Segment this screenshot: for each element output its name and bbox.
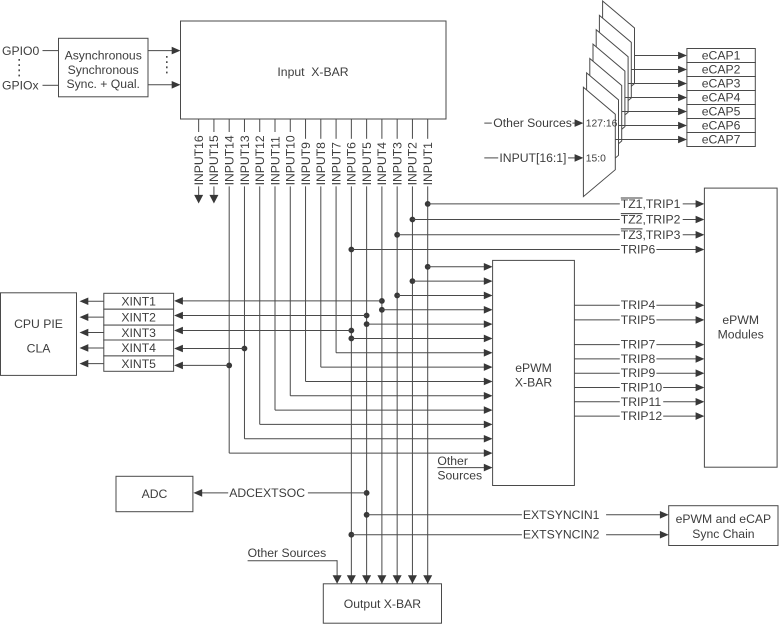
arrow INPUT4 into Output X-BAR <box>377 575 386 584</box>
svg-text:eCAP7: eCAP7 <box>702 133 741 147</box>
label eCAP2 <box>702 63 741 77</box>
box Output X-BAR <box>323 584 441 623</box>
svg-text:INPUT2: INPUT2 <box>406 142 420 186</box>
label Asynchronous <box>65 49 142 63</box>
wire INPUT6 <box>345 119 359 584</box>
svg-text:INPUT6: INPUT6 <box>345 142 359 186</box>
wire INPUT4 into ePWM X-BAR row 4 <box>379 306 493 314</box>
arrow INPUT2 into Output X-BAR <box>408 575 417 584</box>
svg-text:XINT5: XINT5 <box>121 357 156 371</box>
wire mux card 3 to eCAP4 <box>625 94 687 102</box>
svg-text:INPUT[16:1]: INPUT[16:1] <box>499 151 566 165</box>
wire INPUT4 <box>375 119 389 584</box>
svg-text:TZ3,TRIP3: TZ3,TRIP3 <box>621 228 681 242</box>
wire Other Sources into mux <box>484 116 583 130</box>
label 15:0 <box>586 153 606 164</box>
svg-text:XINT4: XINT4 <box>121 341 156 355</box>
label Output X-BAR <box>344 597 421 611</box>
svg-text:INPUT1: INPUT1 <box>421 142 435 186</box>
svg-text:TRIP5: TRIP5 <box>621 313 656 327</box>
arrow XINT3 to CPU PIE <box>80 329 104 337</box>
wire INPUT5 <box>360 119 374 584</box>
wire TRIP8 from ePWM X-BAR to ePWM Modules <box>574 352 704 366</box>
label Other Sources (Output X-BAR) <box>248 546 327 560</box>
wire INPUT2 <box>406 119 420 584</box>
label eCAP5 <box>702 105 741 119</box>
svg-text:X-BAR: X-BAR <box>515 376 552 390</box>
label CPU PIE <box>14 317 63 331</box>
arrow INPUT1 into Output X-BAR <box>423 575 432 584</box>
svg-text:Input X-BAR: Input X-BAR <box>277 65 348 79</box>
wire INPUT[16:1] into mux <box>484 151 583 165</box>
arrow into Input X-BAR (bottom) <box>172 81 181 89</box>
box Async/Sync/Qual <box>59 38 149 97</box>
svg-text:INPUT12: INPUT12 <box>253 135 267 185</box>
wire EXTSYNCIN2 from INPUT6 to sync chain <box>348 528 668 542</box>
wire TRIP5 from ePWM X-BAR to ePWM Modules <box>574 313 704 327</box>
label XINT5 <box>121 357 156 371</box>
label CLA <box>27 342 52 356</box>
svg-text:INPUT14: INPUT14 <box>222 135 236 185</box>
wire XINT5 from INPUT14 <box>174 362 232 370</box>
svg-text:GPIOx: GPIOx <box>2 79 39 93</box>
wire TZ1,TRIP1 from INPUT1 to ePWM Modules <box>425 197 705 211</box>
box XINT2 <box>104 309 174 325</box>
wire qual box to Input X-BAR (bottom) <box>148 84 173 86</box>
box eCAP1 <box>687 49 755 63</box>
arrow XINT5 to CPU PIE <box>80 360 104 368</box>
svg-text:INPUT3: INPUT3 <box>390 142 404 186</box>
svg-text:127:16: 127:16 <box>586 119 618 130</box>
svg-text:eCAP5: eCAP5 <box>702 105 741 119</box>
svg-text:TRIP11: TRIP11 <box>621 395 662 409</box>
svg-text:Sync. + Qual.: Sync. + Qual. <box>66 77 140 91</box>
box ePWM Modules <box>704 188 777 467</box>
wire TRIP11 from ePWM X-BAR to ePWM Modules <box>574 395 704 409</box>
wire INPUT8 <box>314 119 328 367</box>
label eCAP3 <box>702 77 741 91</box>
arrow XINT4 to CPU PIE <box>80 344 104 352</box>
wire INPUT5 into ePWM X-BAR row 5 <box>364 320 493 328</box>
svg-text:eCAP1: eCAP1 <box>702 49 741 63</box>
wire INPUT7 <box>329 119 343 353</box>
wire XINT4 from INPUT13 <box>174 345 247 353</box>
box XINT4 <box>104 340 174 356</box>
box eCAP6 <box>687 119 755 133</box>
wire EXTSYNCIN1 from INPUT5 to sync chain <box>364 508 669 522</box>
label XINT3 <box>121 326 156 340</box>
label Input X-BAR <box>277 65 348 79</box>
wire INPUT12 into ePWM X-BAR row 12 <box>260 421 493 429</box>
wire INPUT15 <box>207 119 221 204</box>
svg-text:CLA: CLA <box>27 342 52 356</box>
wire XINT3 from INPUT6 <box>174 327 354 335</box>
svg-text:15:0: 15:0 <box>586 153 606 164</box>
wire INPUT1 <box>421 119 435 584</box>
wire INPUT13 <box>238 119 252 439</box>
wire INPUT12 <box>253 119 267 424</box>
svg-text:INPUT15: INPUT15 <box>207 135 221 185</box>
box eCAP5 <box>687 105 755 119</box>
svg-text:INPUT7: INPUT7 <box>329 142 343 186</box>
wire INPUT14 into ePWM X-BAR row 14 <box>229 449 492 457</box>
arrow into Input X-BAR (top) <box>172 47 181 55</box>
wire mux card 0 to eCAP7 <box>615 136 687 144</box>
wire INPUT2 into ePWM X-BAR row 2 <box>410 277 493 285</box>
label eCAP1 <box>702 49 741 63</box>
label eCAP6 <box>702 119 741 133</box>
svg-text:INPUT4: INPUT4 <box>375 142 389 186</box>
wire Other Sources into Output X-BAR <box>248 560 342 584</box>
svg-text:TRIP7: TRIP7 <box>621 338 656 352</box>
box ADC <box>116 476 193 511</box>
arrow XINT1 to CPU PIE <box>80 297 104 305</box>
wire ADCEXTSOC from INPUT5 to ADC <box>193 486 369 500</box>
wire INPUT3 into ePWM X-BAR row 3 <box>394 292 492 300</box>
svg-text:eCAP2: eCAP2 <box>702 63 741 77</box>
wire TRIP7 from ePWM X-BAR to ePWM Modules <box>574 338 704 352</box>
svg-text:eCAP4: eCAP4 <box>702 91 741 105</box>
wire TRIP6 from INPUT6 to ePWM Modules <box>348 243 704 257</box>
wire INPUT14 <box>222 119 236 453</box>
box eCAP3 <box>687 77 755 91</box>
wire mux card 4 to eCAP3 <box>628 80 687 88</box>
wire XINT2 from INPUT5 <box>174 312 369 320</box>
svg-text:EXTSYNCIN2: EXTSYNCIN2 <box>523 528 600 542</box>
box eCAP4 <box>687 91 755 105</box>
box eCAP2 <box>687 63 755 77</box>
svg-text:Other Sources: Other Sources <box>248 546 327 560</box>
label ePWM Modules <box>718 313 764 342</box>
wire TZ2,TRIP2 from INPUT2 to ePWM Modules <box>410 213 705 227</box>
svg-text:INPUT5: INPUT5 <box>360 142 374 186</box>
svg-text:eCAP6: eCAP6 <box>702 119 741 133</box>
svg-text:ePWM and eCAP: ePWM and eCAP <box>676 512 772 526</box>
svg-text:Asynchronous: Asynchronous <box>65 49 142 63</box>
svg-text:INPUT11: INPUT11 <box>268 136 282 185</box>
label Synchronous <box>68 63 139 77</box>
svg-text:TRIP9: TRIP9 <box>621 366 656 380</box>
svg-text:Sources: Sources <box>437 469 482 483</box>
box eCAP7 <box>687 133 755 147</box>
box XINT3 <box>104 325 174 340</box>
wire TZ3,TRIP3 from INPUT3 to ePWM Modules <box>394 228 704 242</box>
svg-text:INPUT16: INPUT16 <box>192 135 206 185</box>
wire GPIO0 to qual box <box>43 50 59 52</box>
svg-text:XINT1: XINT1 <box>121 294 156 308</box>
svg-text:TRIP4: TRIP4 <box>621 298 656 312</box>
wire INPUT3 <box>390 119 404 584</box>
svg-text:TRIP10: TRIP10 <box>621 381 663 395</box>
svg-text:TRIP8: TRIP8 <box>621 352 656 366</box>
wire XINT1 from INPUT4 <box>174 297 385 305</box>
svg-text:Other Sources: Other Sources <box>493 116 572 130</box>
wire mux card 2 to eCAP5 <box>622 108 687 116</box>
label eCAP7 <box>702 133 741 147</box>
wire INPUT7 into ePWM X-BAR row 7 <box>336 349 493 357</box>
label XINT1 <box>121 294 156 308</box>
svg-text:INPUT9: INPUT9 <box>299 142 313 186</box>
svg-text:Synchronous: Synchronous <box>68 63 139 77</box>
label XINT4 <box>121 341 156 355</box>
svg-text:Output X-BAR: Output X-BAR <box>344 597 421 611</box>
svg-text:TZ2,TRIP2: TZ2,TRIP2 <box>621 213 681 227</box>
wire INPUT9 <box>299 119 313 381</box>
wire INPUT10 <box>284 119 298 396</box>
svg-text:Other: Other <box>437 454 467 468</box>
wire mux card 6 to eCAP1 <box>635 52 687 60</box>
label ADC <box>142 487 168 501</box>
wire GPIOx to qual box <box>43 84 59 86</box>
wire TRIP4 from ePWM X-BAR to ePWM Modules <box>574 298 704 312</box>
svg-text:Modules: Modules <box>718 328 764 342</box>
svg-text:Sync Chain: Sync Chain <box>692 527 754 541</box>
arrow INPUT6 into Output X-BAR <box>347 575 356 584</box>
svg-text:ePWM: ePWM <box>515 361 552 375</box>
arrow INPUT3 into Output X-BAR <box>393 575 402 584</box>
svg-text:GPIO0: GPIO0 <box>2 44 39 58</box>
label Sync Chain <box>676 512 772 541</box>
wire mux card 1 to eCAP6 <box>619 122 687 130</box>
svg-text:INPUT10: INPUT10 <box>284 135 298 185</box>
box ePWM and eCAP Sync Chain <box>669 506 778 546</box>
wire INPUT13 into ePWM X-BAR row 13 <box>244 435 492 443</box>
wire Other Sources into ePWM X-BAR <box>437 464 492 472</box>
wire TRIP9 from ePWM X-BAR to ePWM Modules <box>574 366 704 380</box>
label Other Sources (ePWM X-BAR) <box>437 454 482 483</box>
node GPIO0 label <box>2 44 39 58</box>
svg-text:eCAP3: eCAP3 <box>702 77 741 91</box>
wire INPUT6 into ePWM X-BAR row 6 <box>348 335 492 343</box>
wire TRIP12 from ePWM X-BAR to ePWM Modules <box>574 409 704 423</box>
svg-text:ePWM: ePWM <box>722 313 759 327</box>
svg-text:CPU PIE: CPU PIE <box>14 317 63 331</box>
svg-text:TRIP6: TRIP6 <box>621 243 656 257</box>
svg-text:TZ1,TRIP1: TZ1,TRIP1 <box>621 197 681 211</box>
box Input X-BAR <box>181 21 447 119</box>
wire INPUT1 into ePWM X-BAR row 1 <box>425 263 493 271</box>
wire INPUT11 <box>268 119 282 410</box>
mux select stack (7 cards) <box>583 1 634 197</box>
label eCAP4 <box>702 91 741 105</box>
label XINT2 <box>121 310 156 324</box>
arrow INPUT5 into Output X-BAR <box>362 575 371 584</box>
arrow XINT2 to CPU PIE <box>80 313 104 321</box>
dotted line between GPIO0 and GPIOx <box>18 59 20 78</box>
node GPIOx label <box>2 79 39 93</box>
dotted line between qual box and Input X-BAR <box>166 56 168 76</box>
box XINT5 <box>104 356 174 371</box>
svg-text:INPUT13: INPUT13 <box>238 135 252 185</box>
svg-text:TRIP12: TRIP12 <box>621 409 663 423</box>
label ePWM X-BAR <box>515 361 552 389</box>
svg-text:ADCEXTSOC: ADCEXTSOC <box>229 486 305 500</box>
svg-text:ADC: ADC <box>142 487 168 501</box>
wire INPUT10 into ePWM X-BAR row 10 <box>290 392 492 400</box>
wire INPUT9 into ePWM X-BAR row 9 <box>306 378 493 386</box>
wire TRIP10 from ePWM X-BAR to ePWM Modules <box>574 381 704 395</box>
box CPU PIE / CLA <box>1 293 77 376</box>
wire mux card 5 to eCAP2 <box>631 66 687 74</box>
wire qual box to Input X-BAR (top) <box>148 50 173 52</box>
box ePWM X-BAR <box>493 260 575 485</box>
svg-text:XINT2: XINT2 <box>121 310 156 324</box>
wire INPUT8 into ePWM X-BAR row 8 <box>321 363 493 371</box>
wire INPUT11 into ePWM X-BAR row 11 <box>275 406 493 414</box>
label Sync. + Qual. <box>66 77 140 91</box>
wire INPUT16 <box>192 119 206 204</box>
label 127:16 <box>586 119 618 130</box>
box XINT1 <box>104 293 174 309</box>
svg-text:INPUT8: INPUT8 <box>314 142 328 186</box>
svg-text:XINT3: XINT3 <box>121 326 156 340</box>
svg-text:EXTSYNCIN1: EXTSYNCIN1 <box>523 508 600 522</box>
